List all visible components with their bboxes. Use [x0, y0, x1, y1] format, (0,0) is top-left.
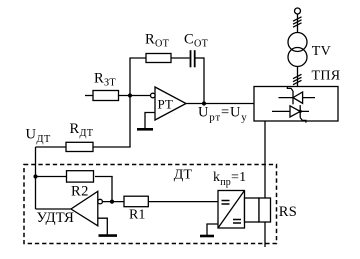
wire РТ output — [186, 103, 254, 105]
thyristor VS1 (upper) — [279, 86, 316, 104]
resistor R2 — [67, 171, 94, 182]
wire Rзт input stub — [85, 95, 93, 97]
terminal circle (supply) — [295, 8, 301, 14]
equals sign upper-left — [222, 201, 230, 205]
resistor Rдт — [66, 142, 93, 151]
wire TV to ТПЯ — [297, 67, 299, 87]
wire feedback right vertical to output — [203, 57, 205, 103]
resistor Rзт — [93, 91, 119, 101]
diagonal of kпр block — [218, 191, 245, 229]
svg-text:RЗТ: RЗТ — [94, 71, 116, 89]
ground РТ — [137, 128, 153, 131]
svg-text:Uрт=Uу: Uрт=Uу — [198, 105, 248, 124]
wire supply to TV — [297, 14, 299, 33]
svg-text:R1: R1 — [129, 208, 145, 223]
wire Uдт node to Rдт — [36, 146, 67, 148]
capacitor Cот — [191, 50, 195, 67]
hatch marks upper line — [293, 17, 302, 27]
wire РТ noninverting input — [145, 113, 155, 129]
thyristor VS2 (lower) — [272, 105, 309, 123]
resistor R1 — [124, 196, 148, 207]
wire armature from ТПЯ down to RS — [264, 121, 266, 198]
wire node to R2 — [36, 176, 67, 178]
ground УДТЯ — [99, 234, 118, 237]
hatch marks lower line — [293, 74, 302, 84]
svg-text:UДТ: UДТ — [26, 127, 51, 146]
equals sign lower-right — [233, 220, 241, 224]
wire УДТЯ noninverting input — [98, 218, 108, 234]
svg-text:RДТ: RДТ — [70, 121, 94, 139]
wire Rзт to op-amp input — [119, 95, 151, 97]
svg-text:РТ: РТ — [158, 96, 173, 111]
transformer TV winding 1 — [288, 33, 307, 52]
wire Uдт vertical down — [35, 147, 37, 209]
op-amp УДТЯ — [71, 191, 98, 226]
wire УДТЯ output to node — [36, 208, 72, 210]
svg-text:RОТ: RОТ — [145, 32, 170, 50]
node summing junction — [128, 93, 132, 97]
wire feedback top-left vertical — [129, 58, 131, 96]
op-amp РТ — [155, 87, 186, 120]
svg-text:ТПЯ: ТПЯ — [312, 69, 341, 84]
block ТПЯ box — [254, 87, 338, 122]
svg-text:УДТЯ: УДТЯ — [37, 210, 75, 226]
node output Uрт — [202, 101, 206, 105]
svg-text:kпр=1: kпр=1 — [213, 170, 246, 188]
node Uдт junction — [33, 174, 37, 178]
block kпр=1 converter — [218, 191, 245, 229]
wire Rot to Cot — [171, 57, 190, 59]
wire R1 to kпр block — [148, 201, 218, 203]
transformer TV winding 2 — [288, 48, 307, 67]
shunt RS box — [259, 198, 271, 222]
wire armature below RS — [264, 222, 266, 247]
coupling box kпр to RS — [245, 198, 260, 222]
wire kпр ground stub — [207, 224, 218, 235]
wire Cot to right corner — [195, 57, 204, 59]
wire node down to Rдт — [129, 96, 131, 148]
wire Rдт to vertical riser — [93, 146, 131, 148]
op-amp РТ inverting input circle — [151, 93, 156, 98]
dashed box ДТ — [24, 165, 277, 244]
resistor Rот — [146, 54, 171, 63]
wire R2 to riser — [95, 176, 113, 178]
wire input circle to R1 — [102, 201, 124, 203]
svg-text:TV: TV — [312, 44, 331, 59]
ground kпр — [200, 235, 214, 238]
node amp input junction — [110, 200, 114, 204]
wire riser down to amp input — [111, 177, 113, 202]
wire feedback top horizontal to Rot — [129, 57, 146, 59]
svg-text:RS: RS — [279, 204, 297, 220]
svg-text:ДТ: ДТ — [174, 168, 193, 183]
svg-text:СОТ: СОТ — [184, 32, 209, 50]
svg-text:R2: R2 — [71, 184, 89, 200]
op-amp УДТЯ inverting input circle — [98, 199, 103, 204]
